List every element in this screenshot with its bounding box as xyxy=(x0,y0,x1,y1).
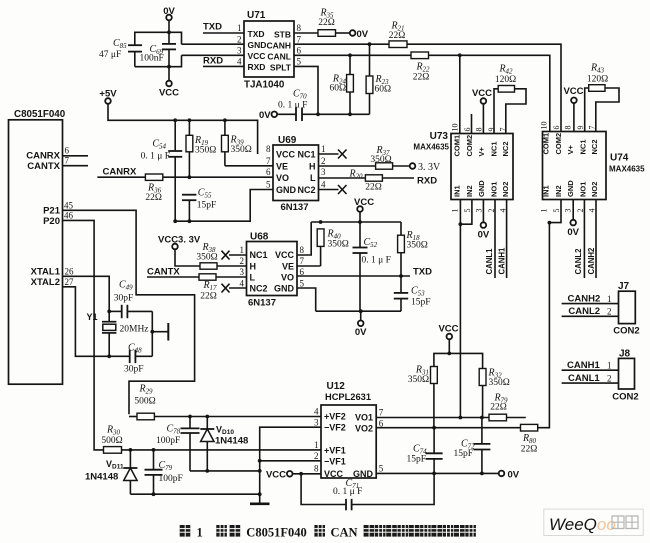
capacitor C53 xyxy=(394,276,431,311)
wire GND pin2 xyxy=(182,43,245,45)
node dots VCC rail xyxy=(319,220,323,224)
svg-text:C8051F040: C8051F040 xyxy=(14,109,66,120)
svg-text:0V: 0V xyxy=(508,469,520,480)
svg-text:350Ω: 350Ω xyxy=(328,239,349,249)
op-amp U12 HCPL2631 box xyxy=(321,381,376,479)
svg-text:CANRX: CANRX xyxy=(103,167,137,178)
node VCC3.3V terminal xyxy=(158,235,201,250)
svg-text:U69: U69 xyxy=(278,135,297,146)
wire U68 GND pin5 xyxy=(297,288,316,311)
node RXD net label xyxy=(382,176,437,187)
svg-text:100nF: 100nF xyxy=(140,54,164,64)
resistor R18 xyxy=(398,222,428,276)
wire U68 pin4 stub with X xyxy=(222,284,247,293)
svg-text:NC2: NC2 xyxy=(501,141,510,156)
watermark WeeQoo xyxy=(544,509,643,535)
svg-text:2: 2 xyxy=(321,156,326,166)
node 3.3V terminal xyxy=(393,162,441,173)
switch U74 MAX4635 box xyxy=(543,132,646,200)
op-amp U68 box xyxy=(247,232,298,309)
resistor R38 xyxy=(196,242,217,269)
wire U68 VCC pin8 riser xyxy=(297,222,311,255)
svg-text:NC1: NC1 xyxy=(250,250,268,260)
svg-text:VCC: VCC xyxy=(276,150,296,160)
svg-text:NC2: NC2 xyxy=(590,139,599,154)
svg-text:350Ω: 350Ω xyxy=(489,378,510,388)
svg-text:VO1: VO1 xyxy=(355,413,373,423)
node dots crystal xyxy=(107,310,111,314)
node dots C78 VD10 taps xyxy=(188,415,192,419)
pin labels U73 bottom (rotated) xyxy=(453,180,511,197)
svg-text:4: 4 xyxy=(240,278,245,288)
svg-text:30pF: 30pF xyxy=(124,365,144,375)
svg-text:CON2: CON2 xyxy=(613,326,639,337)
svg-text:V+: V+ xyxy=(477,146,486,156)
node dots return rail xyxy=(173,219,177,223)
svg-text:4: 4 xyxy=(321,180,326,190)
op-amp U69 box xyxy=(273,135,319,213)
node 0V terminal U74 GND xyxy=(567,200,579,239)
svg-text:4: 4 xyxy=(314,406,319,416)
svg-text:L: L xyxy=(250,272,256,282)
svg-text:120Ω: 120Ω xyxy=(495,75,516,85)
resistor R17 xyxy=(199,274,217,302)
svg-text:60Ω: 60Ω xyxy=(375,85,392,95)
diode VD11 1N4148 xyxy=(85,450,137,494)
svg-text:3: 3 xyxy=(475,209,484,213)
pin labels U74 top (rotated) xyxy=(542,133,600,155)
svg-text:VCC: VCC xyxy=(438,324,458,335)
caption figure title xyxy=(180,525,476,537)
svg-text:22Ω: 22Ω xyxy=(490,403,507,413)
wire SPLT pin5 down xyxy=(294,66,318,114)
wire C78/VD10 bottoms xyxy=(190,470,260,472)
pin numbers U12 xyxy=(314,406,384,473)
P21 route to R29 xyxy=(63,210,195,414)
svg-text:U74: U74 xyxy=(610,153,629,164)
svg-text:NO2: NO2 xyxy=(501,182,510,197)
svg-text:6: 6 xyxy=(266,167,271,177)
wire VCC pin3 xyxy=(182,54,245,56)
svg-text:NO1: NO1 xyxy=(578,182,587,197)
node 0V top terminal xyxy=(163,6,175,20)
svg-text:0. 1 μ F: 0. 1 μ F xyxy=(362,256,391,266)
resistor R20 xyxy=(348,169,382,193)
svg-text:0. 1 μ F: 0. 1 μ F xyxy=(333,487,362,497)
svg-text:7: 7 xyxy=(65,156,70,166)
capacitor C79 xyxy=(145,450,183,494)
svg-text:350Ω: 350Ω xyxy=(196,253,217,263)
wire U12 VO2 pin6 xyxy=(376,427,520,429)
svg-text:6: 6 xyxy=(297,46,302,56)
svg-text:P20: P20 xyxy=(43,216,60,227)
svg-text:R17: R17 xyxy=(202,280,217,292)
svg-text:22Ω: 22Ω xyxy=(200,292,217,302)
node +5V terminal xyxy=(99,89,117,104)
node VCC terminal U74 xyxy=(563,86,583,132)
svg-text:GND: GND xyxy=(353,469,374,479)
svg-text:+VF1: +VF1 xyxy=(324,445,346,455)
wire U74 NO2 CANH2 xyxy=(595,200,597,279)
svg-text:VO: VO xyxy=(281,272,294,282)
pin numbers U68 xyxy=(240,245,305,288)
svg-text:1: 1 xyxy=(240,245,245,255)
svg-text:7: 7 xyxy=(266,156,271,166)
svg-text:8: 8 xyxy=(266,144,271,154)
svg-text:R43: R43 xyxy=(590,63,605,75)
svg-text:CANL1: CANL1 xyxy=(485,248,494,275)
svg-text:H: H xyxy=(309,161,316,171)
svg-text:6N137: 6N137 xyxy=(248,298,276,309)
svg-text:HCPL2631: HCPL2631 xyxy=(325,392,371,402)
resistor R35 xyxy=(318,8,336,37)
svg-text:8: 8 xyxy=(564,126,573,130)
svg-text:NC2: NC2 xyxy=(297,185,315,195)
svg-text:5: 5 xyxy=(266,180,271,190)
node CANL2 wire to J7 pin2 xyxy=(562,306,619,317)
svg-text:U12: U12 xyxy=(327,381,346,392)
svg-text:IN2: IN2 xyxy=(554,185,563,197)
resistor R37 xyxy=(370,145,392,169)
svg-text:VCC: VCC xyxy=(563,86,583,97)
svg-text:6: 6 xyxy=(65,146,70,156)
svg-text:C49: C49 xyxy=(119,280,133,292)
svg-text:10: 10 xyxy=(540,122,549,130)
node dots on 0V rail xyxy=(316,112,320,116)
svg-text:J7: J7 xyxy=(618,281,630,292)
svg-text:IN2: IN2 xyxy=(465,185,474,197)
svg-text:IN1: IN1 xyxy=(453,185,462,197)
node dot IN join xyxy=(459,222,463,226)
svg-text:VCC: VCC xyxy=(275,250,295,260)
svg-text:0V: 0V xyxy=(357,29,369,40)
svg-text:22Ω: 22Ω xyxy=(413,73,430,83)
wire 0V rail to R23 xyxy=(318,113,370,115)
wire U73 NO1 CANL1 xyxy=(494,200,496,279)
svg-text:VCC: VCC xyxy=(354,197,374,208)
wire U12 GND pin5 xyxy=(376,472,499,474)
node dot R18/C53 xyxy=(399,274,403,278)
svg-text:CAN: CAN xyxy=(331,526,358,540)
svg-text:22Ω: 22Ω xyxy=(521,445,538,455)
node 0V terminal right of R35 xyxy=(350,29,369,40)
node 0V terminal right of U12 xyxy=(499,469,520,480)
svg-text:COM2: COM2 xyxy=(554,133,563,155)
svg-text:1N4148: 1N4148 xyxy=(85,472,118,483)
capacitor C48 xyxy=(109,343,152,375)
wire R35 to 0V xyxy=(336,32,350,34)
capacitor C55 xyxy=(182,188,216,222)
svg-text:500Ω: 500Ω xyxy=(101,436,122,446)
capacitor C54 xyxy=(141,120,183,221)
svg-text:5: 5 xyxy=(379,464,384,474)
svg-text:RXD: RXD xyxy=(248,62,266,72)
svg-text:7: 7 xyxy=(379,407,384,417)
node VCC terminal above R31/R32 xyxy=(438,324,458,354)
wire VCC3.3V to R38 xyxy=(175,249,200,266)
P20 route to R30 xyxy=(63,220,104,450)
svg-text:15pF: 15pF xyxy=(411,298,431,308)
node CANH2 wire to J7 pin1 xyxy=(562,294,619,305)
svg-text:22Ω: 22Ω xyxy=(365,183,382,193)
node dots VD11 C79 taps xyxy=(129,448,133,452)
svg-text:15pF: 15pF xyxy=(454,449,474,459)
svg-text:350Ω: 350Ω xyxy=(231,145,252,155)
resistor R40 xyxy=(297,229,349,267)
resistor R32 xyxy=(479,368,510,418)
resistor R30 xyxy=(101,425,122,454)
wire pin8 STB xyxy=(294,32,318,34)
svg-text:2: 2 xyxy=(237,35,242,45)
svg-text:22Ω: 22Ω xyxy=(318,18,335,28)
svg-text:350Ω: 350Ω xyxy=(408,375,429,385)
wire U73 COM2 stub xyxy=(471,114,473,134)
svg-text:1: 1 xyxy=(540,209,549,213)
svg-text:−VF2: −VF2 xyxy=(324,423,346,433)
node junction CANL/U73 riser xyxy=(458,53,462,57)
wire CANL pin6 xyxy=(294,54,411,56)
wire 0V rail below U68 xyxy=(316,310,401,312)
svg-text:6: 6 xyxy=(463,128,472,132)
svg-text:30pF: 30pF xyxy=(114,294,134,304)
wire bottom rail xyxy=(135,55,182,66)
svg-text:100pF: 100pF xyxy=(156,436,180,446)
node dots R24/R23 taps xyxy=(348,53,352,57)
svg-text:C53: C53 xyxy=(411,286,425,298)
ground stub xyxy=(152,323,168,341)
resistor R21 xyxy=(389,21,407,48)
svg-text:0V: 0V xyxy=(163,6,175,17)
node dot VCC rail xyxy=(447,352,451,356)
node VCC terminal U73 xyxy=(472,88,492,134)
node dots ground rail xyxy=(152,492,156,496)
node dots xyxy=(205,469,209,473)
svg-text:1: 1 xyxy=(237,23,242,33)
svg-text:1: 1 xyxy=(321,144,326,154)
wire CANRX to U69 VO xyxy=(163,176,273,178)
svg-text:IN1: IN1 xyxy=(542,185,551,197)
svg-text:NO1: NO1 xyxy=(489,182,498,197)
svg-text:TXD: TXD xyxy=(248,29,265,39)
wire U69 pin3 L xyxy=(319,177,366,179)
svg-text:46: 46 xyxy=(64,211,74,221)
svg-text:VE: VE xyxy=(282,261,294,271)
pin numbers U74 (rotated) xyxy=(540,122,597,213)
wire VCC rail R31/R32 xyxy=(434,353,483,368)
svg-text:0. 1 μ F: 0. 1 μ F xyxy=(278,101,307,111)
node dot R31/C74 tap xyxy=(432,426,436,430)
resistor R29 xyxy=(129,384,156,420)
svg-text:350Ω: 350Ω xyxy=(370,155,391,165)
svg-text:CANTX: CANTX xyxy=(147,267,180,278)
node 0V terminal below U68 xyxy=(355,311,367,338)
wire top rail of C85/C69 xyxy=(135,32,182,45)
svg-text:10: 10 xyxy=(451,124,460,132)
wire U69 pin4 NC2 stub with X xyxy=(319,185,347,194)
capacitor C71 xyxy=(301,473,434,510)
svg-text:NC1: NC1 xyxy=(297,150,315,160)
resistor R31 xyxy=(408,365,438,428)
svg-text:26: 26 xyxy=(65,267,75,277)
svg-text:VCC: VCC xyxy=(248,51,266,61)
svg-text:C8051F040: C8051F040 xyxy=(246,526,306,540)
switch U73 MAX4635 box xyxy=(413,131,513,200)
svg-text:COM1: COM1 xyxy=(453,135,462,157)
svg-text:C70: C70 xyxy=(293,89,307,101)
node dots GND wire xyxy=(432,472,436,476)
svg-text:0V: 0V xyxy=(259,110,271,121)
node CANH1 wire to J8 pin1 xyxy=(562,360,619,371)
svg-text:TXD: TXD xyxy=(203,22,222,33)
svg-text:R30: R30 xyxy=(106,425,121,437)
svg-text:VD10: VD10 xyxy=(216,425,234,437)
svg-text:COM1: COM1 xyxy=(542,133,551,155)
svg-text:GND: GND xyxy=(477,180,486,197)
svg-text:6: 6 xyxy=(379,418,384,428)
wire TXD to pin1 xyxy=(203,32,244,34)
svg-text:2: 2 xyxy=(607,307,612,317)
svg-text:WeeQoo: WeeQoo xyxy=(549,515,616,534)
capacitor C74 xyxy=(407,428,443,474)
svg-text:CANH: CANH xyxy=(266,41,291,51)
svg-text:0V: 0V xyxy=(567,227,579,238)
connector J7 xyxy=(613,281,639,337)
wire U12 VO1 pin7 xyxy=(376,417,489,419)
svg-text:22Ω: 22Ω xyxy=(389,31,406,41)
svg-text:NC2: NC2 xyxy=(250,284,268,294)
node dots VO1 wire xyxy=(459,416,463,420)
resistor R79 xyxy=(489,393,526,421)
svg-text:−VF1: −VF1 xyxy=(324,456,346,466)
wire VCC rail above U68 xyxy=(311,221,401,223)
wire RXD to pin4 xyxy=(203,65,244,67)
svg-text:+VF2: +VF2 xyxy=(324,412,346,422)
svg-text:V+: V+ xyxy=(566,144,575,154)
svg-text:5: 5 xyxy=(300,278,305,288)
svg-text:2: 2 xyxy=(607,374,612,384)
node dot stub xyxy=(150,330,154,334)
svg-text:5: 5 xyxy=(297,57,302,67)
node dot R19/C55 tap xyxy=(188,175,192,179)
wire U73 COM1 riser xyxy=(459,55,461,133)
svg-text:RXD: RXD xyxy=(203,56,223,67)
svg-text:8: 8 xyxy=(297,23,302,33)
node VCC terminal above U68 xyxy=(354,197,374,222)
pin numbers U69 xyxy=(266,144,326,190)
resistor R19 xyxy=(186,120,216,177)
node dot C71 tap xyxy=(299,472,303,476)
svg-text:VD11: VD11 xyxy=(106,459,124,471)
svg-text:VCC: VCC xyxy=(159,88,179,99)
svg-text:J8: J8 xyxy=(619,348,631,359)
capacitor C52 xyxy=(353,222,391,311)
svg-text:GND: GND xyxy=(276,185,297,195)
svg-text:VE: VE xyxy=(276,161,288,171)
resistor R23 xyxy=(366,44,391,114)
svg-text:4: 4 xyxy=(587,209,596,213)
wire U69 GND return rail xyxy=(175,190,273,222)
wire U69 pin2 H xyxy=(319,165,376,167)
svg-text:NC1: NC1 xyxy=(489,141,498,156)
wire CANTX line xyxy=(147,276,199,278)
svg-text:3. 3V: 3. 3V xyxy=(418,162,441,173)
node CANL1 wire to J8 pin2 xyxy=(562,373,619,384)
node dot C52 bottom xyxy=(359,309,363,313)
svg-text:6: 6 xyxy=(552,126,561,130)
svg-text:1: 1 xyxy=(607,361,612,371)
diode VD10 1N4148 xyxy=(200,417,248,471)
wire U69 pin1 NC1 stub with X xyxy=(319,150,347,159)
svg-text:CANH2: CANH2 xyxy=(587,247,596,275)
svg-text:VCC: VCC xyxy=(266,470,286,481)
svg-text:R20: R20 xyxy=(348,169,363,181)
svg-text:CANL2: CANL2 xyxy=(574,248,583,275)
svg-text:0V: 0V xyxy=(478,230,490,241)
pin labels U73 top (rotated) xyxy=(453,135,511,157)
svg-text:9: 9 xyxy=(576,126,585,130)
svg-text:CANRX: CANRX xyxy=(26,151,60,162)
svg-text:NO2: NO2 xyxy=(590,182,599,197)
svg-text:120Ω: 120Ω xyxy=(587,75,608,85)
svg-text:CANH1: CANH1 xyxy=(567,360,600,371)
svg-text:3: 3 xyxy=(564,209,573,213)
svg-text:CANL2: CANL2 xyxy=(568,306,600,317)
node dot U74 IN join xyxy=(548,221,552,225)
svg-text:XTAL2: XTAL2 xyxy=(31,277,60,288)
wire xyxy=(168,20,170,32)
wire +5V rail xyxy=(108,104,258,154)
wire CANRX line xyxy=(97,176,145,178)
svg-text:C55: C55 xyxy=(198,188,212,200)
svg-text:4: 4 xyxy=(237,57,242,67)
ground symbol xyxy=(250,494,270,504)
wire CANTX pin7 stub xyxy=(63,165,89,167)
svg-text:MAX4635: MAX4635 xyxy=(413,143,449,152)
capacitor C85 xyxy=(99,38,142,67)
svg-text:500Ω: 500Ω xyxy=(134,397,155,407)
wire R30 to U12 pin1 xyxy=(122,449,322,451)
capacitor C72 xyxy=(454,418,491,474)
svg-text:U71: U71 xyxy=(247,10,266,21)
node 0V terminal U73 GND xyxy=(478,200,490,241)
svg-text:H: H xyxy=(250,261,257,271)
MCU C8051F040 box xyxy=(9,109,66,384)
node dots vertical xyxy=(258,459,262,463)
svg-text:SPLT: SPLT xyxy=(270,63,292,73)
svg-text:XTAL1: XTAL1 xyxy=(31,267,61,278)
svg-text:C79: C79 xyxy=(159,460,173,472)
wire XTAL1 pin26 xyxy=(63,276,110,311)
svg-text:GND: GND xyxy=(274,284,295,294)
wire crystal ground branch xyxy=(151,311,153,356)
wire U74 NO1 CANL2 xyxy=(583,200,585,279)
svg-text:8: 8 xyxy=(314,464,319,474)
svg-text:CANTX: CANTX xyxy=(27,161,60,172)
svg-text:3: 3 xyxy=(321,167,326,177)
svg-text:VCC: VCC xyxy=(324,469,344,479)
svg-text:0V: 0V xyxy=(355,327,367,338)
pin numbers C8051F040 xyxy=(64,146,74,288)
svg-text:NC1: NC1 xyxy=(578,139,587,154)
wire CANH pin7 xyxy=(294,43,389,45)
svg-text:TJA1040: TJA1040 xyxy=(244,80,285,91)
wire CANL to U74 COM1 xyxy=(429,55,550,131)
svg-text:R80: R80 xyxy=(522,433,537,445)
svg-text:VO2: VO2 xyxy=(355,424,373,434)
resistor R22 xyxy=(411,52,430,83)
wire R38 to U68 H xyxy=(217,265,247,267)
pin labels U74 bottom (rotated) xyxy=(542,180,600,197)
